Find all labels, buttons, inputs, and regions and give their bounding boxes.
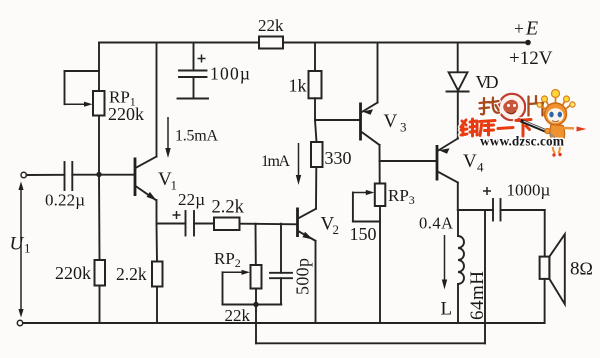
svg-text:1k: 1k [289,76,307,96]
svg-text:1000µ: 1000µ [507,181,551,200]
watermark character 片 [529,96,544,116]
svg-text:8: 8 [570,259,580,280]
wire 0.22µ to V1 base [72,174,135,176]
watermark text 维库一下 [461,119,531,136]
watermark mascot [537,90,586,157]
wire V1 emitter down [156,200,158,224]
transistor V2 (NPN) [298,208,340,241]
transistor V1 (NPN) [135,157,177,201]
capacitor 500p [270,224,313,305]
speaker 8Ω [540,234,593,323]
wire output node to 1000µ [458,209,493,211]
wire top rail left segment [99,42,259,44]
wire V4 collector to output node [457,183,459,211]
resistor 1k [289,43,322,99]
transistor V3 (PNP) [361,103,407,146]
resistor 2.2k (coupling series) [212,198,245,231]
wire to V2 base [240,223,298,226]
svg-text:2.2k: 2.2k [116,264,147,284]
svg-text:V: V [463,151,477,172]
wire drop to RP2 [255,224,257,265]
wire feedback riser (output node to bottom) [484,210,486,343]
wire base node to V3 [315,119,361,121]
wire input terminal to 0.22µ [27,174,65,176]
label 0.4A with current arrow [419,214,453,290]
node +E supply terminal [525,40,531,46]
label 1mA with current arrow [261,143,301,185]
wire rail to RP1 [98,43,100,92]
svg-text:2: 2 [333,222,340,237]
svg-text:330: 330 [325,148,352,168]
svg-text:22µ: 22µ [178,190,205,209]
wire RP2 bottom to junction [255,289,257,305]
resistor 22k (series in +E rail) [258,16,284,49]
capacitor 22µ (coupling) [157,190,206,236]
svg-text:0.4A: 0.4A [419,214,453,233]
label 1.5mA with current arrow [165,117,218,158]
potentiometer RP3 150 [350,184,415,245]
node input junction [96,172,101,177]
inductor L 64mH [441,210,489,323]
wire V2 emitter to ground rail [315,241,317,323]
svg-text:Ω: Ω [580,259,593,279]
wire V3 emitter to rail [377,43,379,103]
svg-text:220k: 220k [55,263,91,283]
svg-text:L: L [441,299,453,320]
wire driver node to V4 base [380,160,437,162]
source U1 arrow [10,182,31,318]
svg-text:1.5mA: 1.5mA [175,128,218,145]
svg-text:+E: +E [514,18,538,40]
wire top rail right segment [283,42,528,44]
svg-text:U: U [10,234,25,255]
wire 1k to V3 base node [314,98,316,120]
svg-text:0.22µ: 0.22µ [45,191,85,210]
svg-text:22k: 22k [258,16,284,35]
watermark seal 找芯片 [499,94,525,120]
wire 22µ to 2.2k [194,223,214,225]
svg-text:+12V: +12V [509,48,553,69]
wire RP2 junction down to feedback line [255,305,257,344]
svg-text:100µ: 100µ [210,64,250,84]
wire V1 collector to rail [156,43,158,157]
node RP2 feedback junction [253,302,258,307]
wire V3 collector down to RP3 [379,145,381,184]
capacitor 100µ (decoupling) [178,43,251,99]
svg-text:4: 4 [477,160,484,175]
capacitor 1000µ (output coupling) [483,181,551,221]
resistor 330 [311,120,352,168]
capacitor 0.22µ [45,162,85,210]
wire RP3 bottom to ground rail [379,206,381,323]
svg-text:500p: 500p [293,258,313,295]
wire 1000µ to speaker [501,210,545,257]
svg-text:2.2k: 2.2k [212,198,245,218]
svg-text:220k: 220k [108,104,144,124]
svg-text:150: 150 [350,224,377,244]
transistor V4 (PNP output) [437,139,484,183]
svg-text:1mA: 1mA [261,153,290,170]
svg-text:1: 1 [171,178,178,193]
svg-text:1: 1 [24,241,31,256]
diode VD [447,43,499,93]
svg-text:V: V [384,111,398,132]
wire VD cathode to V4 emitter [457,92,459,139]
wire RP1 to input node [98,116,100,175]
wire V2 collector to 330 [315,167,317,209]
svg-text:VD: VD [476,72,499,92]
resistor 220k (input bias) [55,175,105,324]
wire feedback bottom run [256,342,485,344]
potentiometer RP1 220k [65,71,145,124]
input terminal (top) [21,172,26,177]
ground bottom rail [23,322,545,324]
potentiometer RP2 22k [214,249,281,325]
watermark character 找 [480,98,500,115]
svg-text:3: 3 [400,120,407,135]
watermark pen [517,118,555,138]
input terminal (bottom) [17,320,22,325]
resistor 2.2k (V1 emitter) [116,224,163,324]
